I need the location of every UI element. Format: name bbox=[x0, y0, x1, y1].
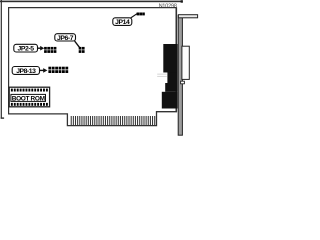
label JP14 bbox=[113, 18, 132, 26]
svg-text:N10298: N10298 bbox=[159, 3, 177, 9]
card bottom edge with edge-connector step bbox=[8, 112, 177, 126]
mounting bracket top tab bbox=[178, 15, 197, 18]
jumper block JP6-7 bbox=[79, 47, 85, 53]
jumper block JP8-13 bbox=[48, 67, 68, 73]
svg-text:JP14: JP14 bbox=[115, 19, 130, 26]
boot rom socket outline bbox=[9, 87, 49, 107]
connector neck lower bbox=[165, 83, 177, 92]
svg-text:JP2-5: JP2-5 bbox=[18, 46, 35, 53]
label JP2-5 bbox=[14, 44, 38, 52]
figure left border line bbox=[1, 0, 2, 119]
connector neck upper bbox=[167, 72, 177, 83]
leader line JP14 bbox=[131, 14, 137, 18]
mounting bracket vertical bar bbox=[178, 15, 182, 135]
boot rom label box bbox=[11, 94, 46, 101]
svg-text:JP8-13: JP8-13 bbox=[16, 68, 36, 75]
boot rom socket bottom pin row bbox=[11, 103, 48, 106]
leader line JP6-7 bbox=[75, 41, 80, 48]
card right edge bbox=[175, 7, 177, 112]
card outline (PCB) bbox=[9, 8, 177, 114]
svg-text:JP6-7: JP6-7 bbox=[57, 35, 74, 42]
edge connector gold fingers bbox=[71, 116, 156, 125]
figure left border bottom stub bbox=[1, 117, 4, 118]
arrow JP8-13 bbox=[40, 69, 44, 71]
DB15 connector shell on bracket bbox=[182, 46, 189, 79]
AUI connector body (black box) bbox=[163, 44, 177, 73]
BNC connector body (black box) bbox=[162, 92, 178, 109]
jumper block JP2-5 bbox=[44, 47, 56, 53]
figure top border line bbox=[0, 1, 183, 3]
jumper block JP14 bbox=[137, 13, 145, 16]
label JP8-13 bbox=[12, 67, 39, 75]
arrow JP2-5 bbox=[37, 47, 40, 49]
label JP6-7 bbox=[55, 34, 76, 41]
faint component outline left of neck bbox=[157, 74, 167, 75]
svg-text:BOOT ROM: BOOT ROM bbox=[12, 96, 45, 103]
boot rom socket top pin row bbox=[11, 89, 48, 92]
figure top border end tick bbox=[181, 0, 183, 3]
DB15 bottom screw tab bbox=[181, 81, 185, 84]
